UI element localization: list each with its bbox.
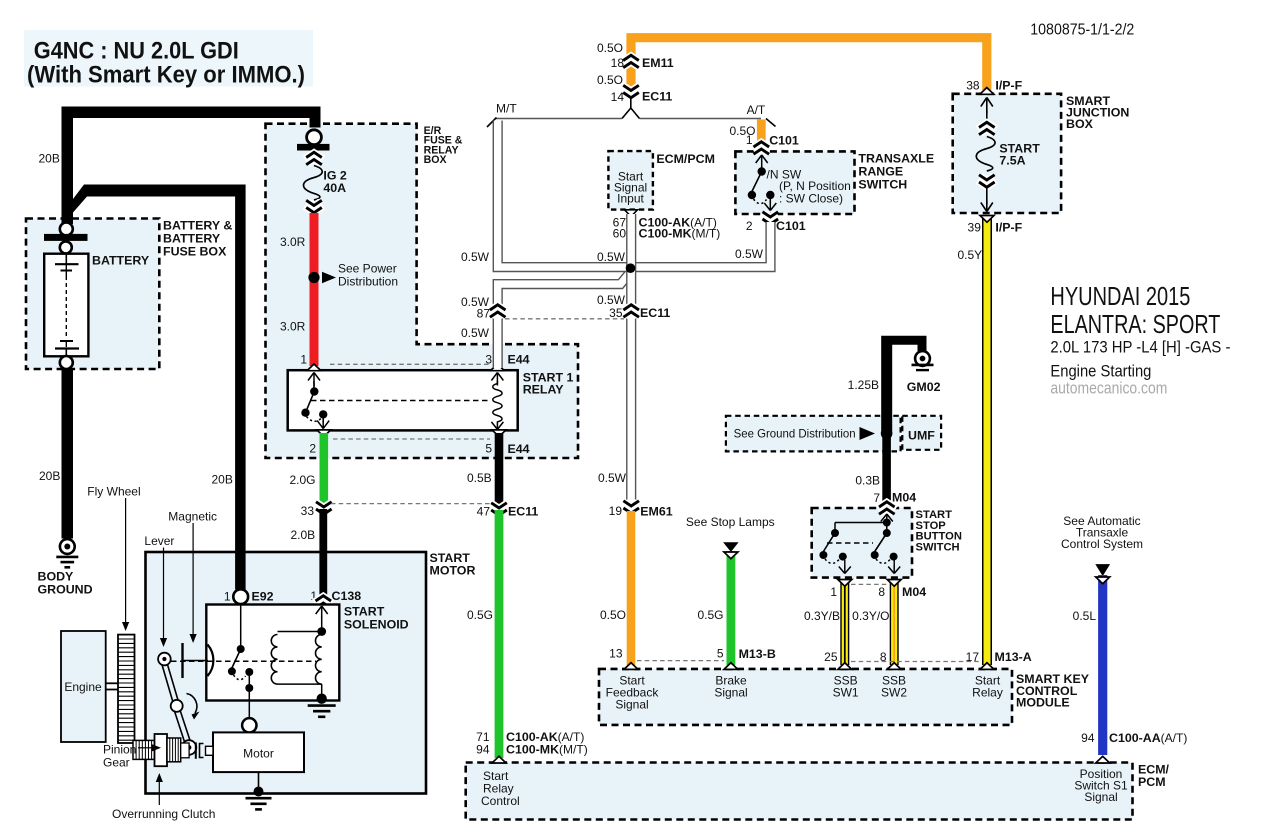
svg-text:0.5O: 0.5O (600, 608, 626, 622)
svg-text:0.5G: 0.5G (467, 608, 493, 622)
svg-text:Pinion: Pinion (103, 743, 136, 757)
see power distribution tap (308, 262, 398, 289)
svg-text:ECM/PCM: ECM/PCM (656, 152, 715, 166)
svg-text:See Ground Distribution: See Ground Distribution (734, 427, 856, 441)
label Position Switch S1 Signal (1074, 767, 1128, 804)
label 8 lower (880, 650, 887, 664)
relay pin5 notch (492, 430, 506, 437)
svg-text:0.5W: 0.5W (461, 326, 490, 340)
svg-text:8: 8 (878, 585, 885, 599)
label SSB SW1 (833, 674, 859, 700)
ground GM02 symbol (912, 351, 934, 370)
svg-text:Signal: Signal (714, 686, 747, 700)
label P/N SW (767, 168, 802, 182)
svg-text:BATTERY: BATTERY (163, 232, 221, 246)
label 3.0R lower (280, 320, 306, 334)
motor input ring (242, 718, 256, 732)
svg-text:2.0L 173 HP -L4 [H] -GAS -: 2.0L 173 HP -L4 [H] -GAS - (1050, 338, 1230, 357)
svg-text:19: 19 (609, 504, 623, 518)
svg-text:C100-MK(M/T): C100-MK(M/T) (506, 743, 588, 757)
overrunning clutch body (155, 734, 214, 766)
battery terminal ring top (60, 223, 73, 236)
svg-text:ELANTRA: SPORT: ELANTRA: SPORT (1050, 309, 1220, 339)
svg-text:M04: M04 (892, 491, 916, 505)
label BATTERY & BATTERY FUSE BOX (163, 219, 232, 259)
label 0.5Y (958, 248, 983, 262)
svg-text:PCM: PCM (1138, 775, 1166, 789)
diagram title (27, 38, 305, 89)
svg-text:Engine: Engine (64, 680, 102, 694)
svg-text:0.5L: 0.5L (1073, 609, 1097, 623)
fly wheel callout (122, 498, 129, 631)
svg-text:A/T: A/T (747, 103, 766, 117)
svg-text:1.25B: 1.25B (848, 378, 879, 392)
lever callout (160, 548, 167, 648)
connector M04 pin7 chevrons (879, 502, 895, 514)
dashed link EC11 87-35 (505, 318, 624, 320)
E/R fuse & relay box outline (266, 124, 579, 458)
svg-text:TRANSAXLE: TRANSAXLE (858, 152, 934, 166)
svg-text:0.3B: 0.3B (855, 474, 880, 488)
solenoid switch (228, 604, 253, 718)
label 0.5L (1073, 609, 1097, 623)
label 17 (966, 650, 980, 664)
label M04 top (892, 491, 916, 505)
label EC11 (642, 90, 672, 104)
svg-text:SW2: SW2 (881, 686, 907, 700)
label 33 (301, 504, 315, 518)
label SMART JUNCTION BOX (1066, 94, 1129, 131)
svg-text:5: 5 (717, 647, 724, 661)
svg-text:C101: C101 (776, 219, 806, 233)
label Start Signal Input (614, 170, 647, 206)
svg-text:0.5W: 0.5W (597, 293, 626, 307)
svg-text:Input: Input (617, 192, 644, 206)
label ECM/PCM bottom (1138, 763, 1170, 790)
label 7 M04 (873, 491, 880, 505)
dashed link E44 pin1-pin3 (330, 363, 490, 365)
svg-text:M13-B: M13-B (739, 647, 776, 661)
label UMF (908, 429, 935, 443)
svg-text:FUSE BOX: FUSE BOX (163, 245, 227, 259)
svg-text:BOX: BOX (1066, 117, 1094, 131)
label See Automatic Transaxle Control System (1061, 514, 1143, 551)
dashed link M13-B 13-5 (637, 660, 724, 662)
svg-text:38: 38 (966, 79, 980, 93)
clutch callout (156, 773, 163, 805)
notch green into smart key box (724, 663, 738, 670)
pinion gear block (133, 740, 155, 759)
svg-text:14: 14 (611, 90, 625, 104)
svg-text:87: 87 (477, 307, 491, 321)
connector 35 chevrons (623, 305, 639, 317)
label IG 2 40A (323, 168, 347, 195)
ssb mechanical dashed link (827, 542, 873, 544)
label pin 8 ssb top (878, 585, 885, 599)
A/T branch tick (766, 119, 776, 127)
label pin 1 ssb (830, 585, 837, 599)
dashed link M13-A 25-8-17 (851, 661, 980, 663)
svg-text:94: 94 (476, 743, 490, 757)
svg-text:1: 1 (224, 590, 231, 604)
svg-text:1080875-1/1-2/2: 1080875-1/1-2/2 (1030, 22, 1134, 39)
wire 0.5G stop lamps to smart key pin5 (724, 551, 738, 665)
label pin 5 (485, 442, 492, 456)
connector E92 ring (233, 589, 248, 604)
connector chevrons above red wire (306, 200, 322, 212)
connector C138 chevron (316, 596, 332, 608)
svg-text:47: 47 (477, 505, 491, 519)
transaxle range switch box outline (735, 151, 854, 214)
battery terminal ring 2 (60, 241, 72, 253)
svg-text:60: 60 (613, 227, 627, 241)
dashed link E44 pin2-pin5 (333, 438, 490, 440)
UMF box (902, 416, 941, 450)
label C100-AK/MK bottom (506, 730, 588, 757)
relay pin2 notch (317, 430, 331, 437)
label 2.0G (290, 473, 316, 487)
wire 0.5W lower branch junction to 87 and E44 pin3 (498, 273, 630, 369)
label Start Feedback Signal (606, 674, 660, 712)
label 5 M13-B (717, 647, 724, 661)
notch green wire into ECM box (492, 756, 506, 763)
C138 entry arrow (316, 606, 328, 618)
wire 0.5W M/T branch down and across to C101 (498, 121, 771, 268)
label 13 (609, 647, 623, 661)
sheet number (1030, 22, 1134, 39)
wire 0.3Y/B ssb sw1 (840, 580, 849, 665)
label pin 3 relay (485, 353, 492, 367)
start stop button switch box outline (812, 508, 912, 578)
label C101 top (769, 134, 799, 148)
label START STOP BUTTON SWITCH (916, 509, 962, 553)
label Fly Wheel (87, 485, 140, 499)
label 0.5W row1 left (461, 250, 490, 264)
label 0.3B (855, 474, 880, 488)
label C138 (332, 589, 362, 603)
M/T branch tick (487, 118, 497, 128)
svg-text:EC11: EC11 (642, 90, 672, 104)
svg-text:25: 25 (824, 650, 838, 664)
label 0.5O mid (597, 73, 623, 87)
label START SOLENOID (344, 605, 409, 632)
svg-text:GM02: GM02 (907, 380, 941, 394)
IG2 fuse terminal circle (307, 130, 322, 145)
engine to flywheel shaft (106, 683, 118, 689)
svg-text:35: 35 (609, 306, 623, 320)
label pins 71 94 (476, 730, 490, 757)
svg-text:Control: Control (481, 794, 520, 808)
svg-text:C101: C101 (769, 134, 799, 148)
svg-text:G4NC : NU 2.0L GDI: G4NC : NU 2.0L GDI (34, 38, 239, 65)
vehicle title block (1050, 281, 1230, 398)
wire 0.3Y/O ssb sw2 (890, 580, 899, 665)
notch yellow17 into smart key box (980, 663, 994, 670)
label 0.5O lower (600, 608, 626, 622)
label 20B right (212, 473, 233, 487)
svg-text:SOLENOID: SOLENOID (344, 618, 409, 632)
svg-text:Gear: Gear (103, 756, 130, 770)
label 0.5O top (597, 41, 623, 55)
svg-text:Lever: Lever (144, 534, 174, 548)
svg-text:1: 1 (300, 353, 307, 367)
svg-text:Control System: Control System (1061, 537, 1143, 551)
svg-text:0.5W: 0.5W (598, 471, 627, 485)
notch yellow1 into smart key box (838, 663, 852, 670)
label Start Relay (972, 674, 1003, 700)
svg-text:See Stop Lamps: See Stop Lamps (686, 515, 775, 529)
svg-text:EC11: EC11 (508, 505, 538, 519)
wire 0.5G connector 47 to ECM pin71/94 (495, 510, 504, 758)
svg-text:0.5W: 0.5W (735, 247, 764, 261)
svg-text:See Power: See Power (338, 262, 397, 276)
svg-text:2.0B: 2.0B (291, 528, 316, 542)
mechanical dashed link solenoid (171, 660, 316, 662)
svg-text:20B: 20B (212, 473, 233, 487)
label 0.5W row1 mid (597, 250, 626, 264)
svg-text:M13-A: M13-A (995, 650, 1032, 664)
label 0.5W above EM61 (598, 471, 627, 485)
label I/P-F top (995, 79, 1022, 93)
motor box (213, 732, 304, 772)
label 0.5W row2 left (461, 295, 490, 309)
svg-text:BODY: BODY (38, 570, 75, 584)
svg-text:BOX: BOX (424, 154, 447, 166)
notch orange into smart key box (624, 663, 638, 670)
label 39 (968, 221, 982, 235)
svg-text:C138: C138 (332, 589, 362, 603)
svg-text:Overrunning Clutch: Overrunning Clutch (112, 807, 215, 821)
svg-text:GROUND: GROUND (38, 583, 93, 597)
svg-text:18: 18 (611, 56, 625, 70)
dashed link EC11 33-47 (331, 503, 491, 505)
svg-text:33: 33 (301, 504, 315, 518)
label M13-B (739, 647, 776, 661)
svg-text:I/P-F: I/P-F (995, 79, 1022, 93)
label A/T (747, 103, 766, 117)
label 25 (824, 650, 838, 664)
svg-text:Signal: Signal (1084, 790, 1117, 804)
start solenoid box (206, 605, 339, 701)
svg-text:39: 39 (968, 221, 982, 235)
svg-text:M/T: M/T (496, 102, 517, 116)
svg-text:E92: E92 (252, 590, 274, 604)
label 20B top (39, 152, 60, 166)
svg-text:0.3Y/O: 0.3Y/O (852, 609, 889, 623)
label 0.5W row2 mid (597, 293, 626, 307)
svg-text:START: START (344, 605, 385, 619)
label EM61 (640, 505, 672, 519)
svg-text:EM61: EM61 (640, 505, 672, 519)
motor ground (246, 787, 272, 810)
label 0.3Y/O (852, 609, 889, 623)
svg-text:RANGE: RANGE (858, 165, 903, 179)
wire 0.5Y SJB to smart key pin17 (982, 216, 992, 665)
svg-text:C100-MK(M/T): C100-MK(M/T) (639, 227, 721, 241)
smart junction box outline (953, 94, 1061, 213)
connector 33 chevrons (316, 502, 332, 514)
label 0.5G right (697, 608, 723, 622)
magnetic actuator bracket (183, 643, 214, 678)
svg-text:RELAY: RELAY (523, 383, 565, 397)
wire 0.5B relay pin5 to connector 47 (495, 433, 504, 508)
svg-text:Fly Wheel: Fly Wheel (87, 485, 140, 499)
label E/R FUSE & RELAY BOX (424, 125, 463, 166)
connector EM61 chevrons (623, 501, 639, 513)
connector chevrons below IG2 bar (306, 152, 322, 164)
label 2.0B (291, 528, 316, 542)
label pins 67 60 (613, 216, 627, 241)
svg-text:I/P-F: I/P-F (995, 221, 1022, 235)
label pin 2 (309, 442, 316, 456)
label I/P-F bottom (995, 221, 1022, 235)
wire 0.5O A/T to C101 pin1 (757, 120, 766, 143)
label pin1 C138 (310, 589, 317, 603)
wire 20B battery positive to IG2 fuse (top run) (62, 107, 321, 225)
wire 1.25B GM02 run (881, 336, 927, 506)
svg-text:3: 3 (485, 353, 492, 367)
label START 1 RELAY (523, 371, 574, 397)
svg-text:17: 17 (966, 650, 980, 664)
label E44 bottom (508, 442, 530, 456)
SJB fuse START 7.5A (976, 98, 995, 212)
svg-text:MODULE: MODULE (1016, 696, 1070, 710)
label START 7.5A (999, 142, 1040, 168)
label C100-AK C100-MK (639, 216, 721, 241)
label BODY GROUND (38, 570, 93, 597)
ECM/PCM start-signal box outline (608, 151, 653, 210)
see ground distribution box (726, 416, 901, 452)
junction dot white wires (626, 263, 636, 273)
wire 3.0R IG2 to relay pin1 (310, 213, 319, 366)
svg-text:20B: 20B (39, 469, 60, 483)
relay coil (491, 373, 503, 430)
svg-text:M04: M04 (902, 585, 926, 599)
svg-text:EC11: EC11 (640, 306, 670, 320)
notch yellow top at 39 (980, 216, 994, 223)
label 0.5W above E44 (461, 326, 490, 340)
notch orange into SJB (980, 88, 994, 95)
svg-text:40A: 40A (323, 181, 346, 195)
solenoid ground (308, 694, 336, 717)
relay mechanical dashed link (311, 400, 491, 402)
label BATTERY (92, 254, 150, 268)
label GM02 (907, 380, 941, 394)
label M/T (496, 102, 517, 116)
label 19 (609, 504, 623, 518)
svg-text:20B: 20B (39, 152, 60, 166)
svg-text:0.5Y: 0.5Y (958, 248, 983, 262)
label 87 (477, 307, 491, 321)
wire 2.0G relay pin2 to connector 33 (319, 433, 328, 507)
notch yellow2 top (887, 580, 901, 587)
svg-text:0.5W: 0.5W (597, 250, 626, 264)
wire 2.0B connector 33 to C138 (319, 509, 327, 600)
solenoid windings (271, 616, 326, 695)
wire 0.5O EM61 to smart key pin13 (627, 511, 636, 665)
label Start Relay Control (481, 769, 520, 808)
label pin1 C101 (746, 133, 753, 147)
label EC11 at 47 (508, 505, 538, 519)
start motor box outline (146, 552, 427, 794)
svg-text:Distribution: Distribution (338, 275, 398, 289)
transaxle range switch contacts (748, 155, 777, 211)
svg-text:94: 94 (1081, 731, 1095, 745)
connector 87 chevrons (490, 305, 506, 317)
label 3.0R upper (280, 235, 306, 249)
label SMART KEY CONTROL MODULE (1016, 672, 1090, 710)
notch yellow1 top (838, 580, 852, 587)
svg-text:E44: E44 (508, 442, 530, 456)
svg-text:3.0R: 3.0R (280, 320, 306, 334)
connector EM11 chevrons (623, 55, 639, 67)
connector EC11 chevrons (623, 85, 639, 97)
svg-text:SWITCH: SWITCH (916, 541, 960, 553)
svg-text:0.3Y/B: 0.3Y/B (804, 609, 840, 623)
label 38 (966, 79, 980, 93)
label Motor (243, 747, 274, 761)
wire 20B battery to start motor E92 (second run) (73, 185, 246, 590)
svg-text:Magnetic: Magnetic (168, 510, 217, 524)
motor ground wire (258, 772, 260, 788)
transaxle arrow (1095, 564, 1110, 576)
wire 0.5W from ECM C100 through junction to EM61 (626, 214, 636, 505)
label 1.25B (848, 378, 879, 392)
label pin 1 relay (300, 353, 307, 367)
title background highlight (24, 30, 313, 87)
label 18 (611, 56, 625, 70)
svg-text:0.5B: 0.5B (467, 471, 492, 485)
svg-text:1: 1 (830, 585, 837, 599)
fly wheel (118, 635, 135, 743)
label pin2 C101 (746, 219, 753, 233)
label 47 (477, 505, 491, 519)
svg-text:5: 5 (485, 442, 492, 456)
wire 0.5O top orange run (631, 38, 987, 90)
label Magnetic (168, 510, 217, 524)
label 0.5W row1 right (735, 247, 764, 261)
battery cell symbol (55, 254, 79, 356)
smart key control module box outline (599, 669, 1012, 725)
svg-text:SWITCH: SWITCH (858, 178, 907, 192)
engine box (61, 631, 106, 742)
see ground distribution tap (734, 427, 875, 441)
svg-text:MOTOR: MOTOR (430, 564, 476, 578)
svg-text:2: 2 (746, 219, 753, 233)
svg-text:: SW Close): : SW Close) (779, 192, 843, 206)
body ground symbol (56, 539, 78, 567)
relay switch (301, 373, 329, 429)
label Lever (144, 534, 174, 548)
svg-text:BATTERY: BATTERY (92, 254, 150, 268)
start 1 relay box (288, 370, 518, 430)
svg-text:UMF: UMF (908, 429, 935, 443)
label EC11 at 35 (640, 306, 670, 320)
wire 20B battery negative to body ground (62, 369, 74, 539)
label Overrunning Clutch (112, 807, 215, 821)
svg-text:3.0R: 3.0R (280, 235, 306, 249)
label 20B left (39, 469, 60, 483)
lever linkage (158, 653, 196, 755)
label P N position (779, 179, 851, 206)
svg-text:13: 13 (609, 647, 623, 661)
battery symbol box (44, 254, 88, 357)
ECM box exit notch (625, 210, 638, 217)
magnetic callout (190, 523, 197, 643)
svg-text:Motor: Motor (243, 747, 274, 761)
label SSB SW2 (881, 674, 907, 700)
svg-text:Signal: Signal (615, 698, 648, 712)
